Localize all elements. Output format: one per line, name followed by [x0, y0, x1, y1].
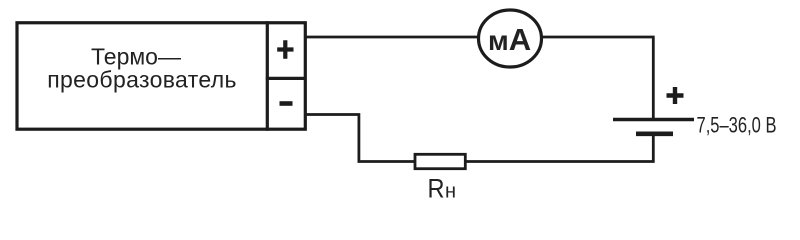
battery plus sign: [667, 87, 684, 104]
wire plus terminal to milliammeter: [305, 36, 480, 39]
wire milliammeter to battery top: [541, 37, 654, 118]
svg-text:преобразователь: преобразователь: [47, 67, 237, 93]
battery positive plate: [613, 118, 694, 121]
terminal cell divider: [266, 77, 306, 80]
terminal column divider: [266, 21, 269, 131]
plus terminal symbol: [277, 40, 293, 59]
svg-text:7,5–36,0 В: 7,5–36,0 В: [697, 113, 777, 138]
wire resistor to minus terminal: [305, 115, 415, 162]
resistor RH body: [415, 154, 465, 168]
battery negative plate: [636, 132, 673, 137]
wire battery bottom to resistor: [466, 136, 654, 162]
svg-text:R: R: [428, 174, 445, 204]
milliammeter U1: [479, 10, 542, 67]
transducer outer box: [17, 23, 305, 129]
minus terminal symbol: [280, 101, 293, 106]
svg-text:н: н: [445, 181, 456, 203]
svg-text:мА: мА: [488, 22, 531, 57]
